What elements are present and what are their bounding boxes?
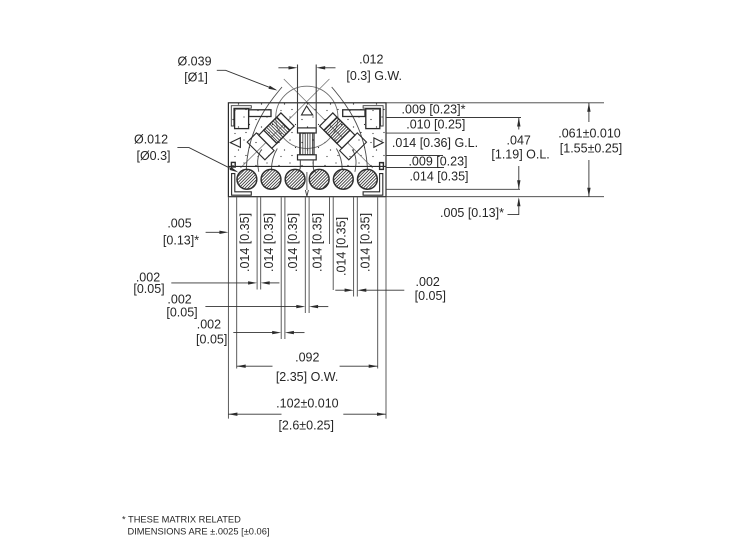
svg-text:.047: .047 xyxy=(507,134,531,148)
svg-text:[0.05]: [0.05] xyxy=(196,332,227,346)
svg-text:.102±0.010: .102±0.010 xyxy=(276,397,339,411)
svg-text:.092: .092 xyxy=(295,351,319,365)
svg-text:Ø.039: Ø.039 xyxy=(177,55,211,69)
svg-text:.002: .002 xyxy=(167,293,191,307)
svg-text:.014 [0.35]: .014 [0.35] xyxy=(262,213,276,272)
svg-text:.014 [0.35]: .014 [0.35] xyxy=(310,213,324,272)
svg-text:[0.05]: [0.05] xyxy=(133,282,164,296)
svg-text:[0.05]: [0.05] xyxy=(166,306,197,320)
svg-text:.014 [0.35]: .014 [0.35] xyxy=(409,170,468,184)
svg-text:.009 [0.23]: .009 [0.23] xyxy=(408,155,467,169)
svg-text:[0.05]: [0.05] xyxy=(415,289,446,303)
svg-text:[2.35] O.W.: [2.35] O.W. xyxy=(276,370,339,384)
svg-text:[Ø0.3]: [Ø0.3] xyxy=(136,149,170,163)
svg-text:[Ø1]: [Ø1] xyxy=(184,71,208,85)
svg-text:[0.13]*: [0.13]* xyxy=(163,233,199,247)
svg-text:.014 [0.35]: .014 [0.35] xyxy=(286,213,300,272)
svg-text:.005 [0.13]*: .005 [0.13]* xyxy=(440,206,504,220)
svg-text:.002: .002 xyxy=(197,318,221,332)
svg-text:DIMENSIONS ARE ±.0025 [±0.06]: DIMENSIONS ARE ±.0025 [±0.06] xyxy=(128,526,270,536)
svg-text:.014 [0.36] G.L.: .014 [0.36] G.L. xyxy=(392,136,478,150)
svg-text:.014 [0.35]: .014 [0.35] xyxy=(334,217,348,276)
svg-text:.005: .005 xyxy=(167,217,191,231)
svg-text:.061±0.010: .061±0.010 xyxy=(558,127,621,141)
svg-text:Ø.012: Ø.012 xyxy=(134,133,168,147)
svg-text:.002: .002 xyxy=(416,275,440,289)
svg-text:.010 [0.25]: .010 [0.25] xyxy=(406,118,465,132)
svg-text:* THESE MATRIX RELATED: * THESE MATRIX RELATED xyxy=(122,515,241,525)
svg-text:.012: .012 xyxy=(359,53,383,67)
svg-text:[1.19] O.L.: [1.19] O.L. xyxy=(491,148,549,162)
svg-text:.009 [0.23]*: .009 [0.23]* xyxy=(402,103,466,117)
svg-text:.014 [0.35]: .014 [0.35] xyxy=(359,213,373,272)
svg-text:[0.3] G.W.: [0.3] G.W. xyxy=(346,69,402,83)
svg-text:[1.55±0.25]: [1.55±0.25] xyxy=(560,142,622,156)
svg-text:[2.6±0.25]: [2.6±0.25] xyxy=(278,419,334,433)
svg-text:.014 [0.35]: .014 [0.35] xyxy=(238,213,252,272)
